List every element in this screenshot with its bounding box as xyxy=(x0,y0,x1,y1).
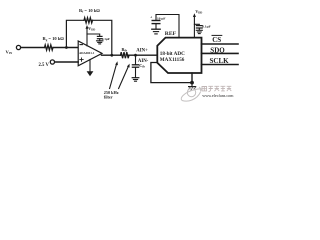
svg-text:MAX11156: MAX11156 xyxy=(160,57,185,63)
watermark logo xyxy=(181,87,202,101)
wire VDD ADC to box xyxy=(193,17,195,38)
resistor Rfb xyxy=(121,52,130,58)
svg-text:CS: CS xyxy=(212,36,221,44)
wire feedback left vertical xyxy=(66,20,84,47)
wire SCLK output xyxy=(202,64,239,66)
wire op-amp ground stub xyxy=(89,60,91,72)
node VIN terminal xyxy=(16,45,20,49)
wire SDO output xyxy=(202,52,239,54)
power VDD ADC arrow xyxy=(193,13,196,17)
svg-text:AIN-: AIN- xyxy=(138,59,149,64)
svg-text:Rfb: Rfb xyxy=(122,47,128,53)
wire VDD branch to decoupling cap xyxy=(87,34,100,36)
wire CS overline xyxy=(212,34,222,36)
node 2.5V terminal xyxy=(50,60,54,64)
svg-text:2.5 V: 2.5 V xyxy=(39,63,50,68)
wire op-amp VDD stub xyxy=(86,29,88,46)
wire CS output xyxy=(202,43,239,45)
node Cfb junction xyxy=(134,54,137,57)
node ground junction xyxy=(190,81,194,85)
svg-text:REF: REF xyxy=(165,31,177,37)
ADC box MAX11156 xyxy=(157,38,201,73)
annotation arrow to Cfb xyxy=(119,66,129,88)
resistor Rf xyxy=(84,18,93,23)
svg-text:0.1µF: 0.1µF xyxy=(202,24,210,28)
resistor Rg xyxy=(45,45,54,50)
svg-text:SCLK: SCLK xyxy=(210,57,230,65)
ground ADC cap xyxy=(196,29,202,31)
svg-text:Rf = 10 kΩ: Rf = 10 kΩ xyxy=(79,8,100,14)
wire Rfb to AIN+ pin xyxy=(129,54,158,56)
capacitor 10uF REF xyxy=(152,20,160,22)
wire feedback right vertical to output xyxy=(92,20,112,55)
ground REF cap xyxy=(152,28,160,30)
svg-text:10 µF: 10 µF xyxy=(157,17,166,21)
wire 2.5V to op-amp noninverting input xyxy=(55,61,78,63)
capacitor Cfb xyxy=(135,55,137,64)
svg-text:VIN: VIN xyxy=(6,50,13,56)
node feedback junction xyxy=(65,46,68,49)
svg-text:0.1µF: 0.1µF xyxy=(102,37,110,41)
svg-text:www.elecfans.com: www.elecfans.com xyxy=(202,93,234,98)
ground Cfb xyxy=(132,77,139,79)
op-amp U1 xyxy=(78,41,102,66)
svg-text:AIN+: AIN+ xyxy=(136,49,148,54)
power VDD op-amp arrow xyxy=(86,25,89,29)
wire AIN- routing to ground rail xyxy=(151,63,192,83)
svg-text:ADA4841-1: ADA4841-1 xyxy=(79,51,95,55)
wire REF pin xyxy=(156,15,179,38)
svg-text:Rg = 10 kΩ: Rg = 10 kΩ xyxy=(43,36,65,42)
annotation arrow to Rfb xyxy=(110,64,117,89)
svg-text:SDO: SDO xyxy=(210,46,225,54)
node output junction xyxy=(110,54,113,57)
capacitor 0.1uF ADC xyxy=(196,25,202,27)
label op-amp plus sign xyxy=(80,59,83,61)
wire VIN to Rg xyxy=(21,47,45,49)
label op-amp minus sign xyxy=(80,44,82,46)
svg-text:18-bit ADC: 18-bit ADC xyxy=(160,51,185,57)
wire ADC GND pin xyxy=(191,73,193,83)
ground op-amp cap xyxy=(97,40,103,42)
ground op-amp (filled triangle) xyxy=(87,71,94,76)
capacitor 0.1uF op-amp xyxy=(97,35,102,37)
watermark chinese text xyxy=(202,86,231,92)
wire VDD cap branch xyxy=(194,23,199,26)
wire op-amp output to Rfb xyxy=(102,54,121,56)
wire Rg to op-amp inverting input xyxy=(53,47,78,49)
ground ADC (hatched) xyxy=(191,83,193,87)
svg-text:filter: filter xyxy=(104,95,113,100)
